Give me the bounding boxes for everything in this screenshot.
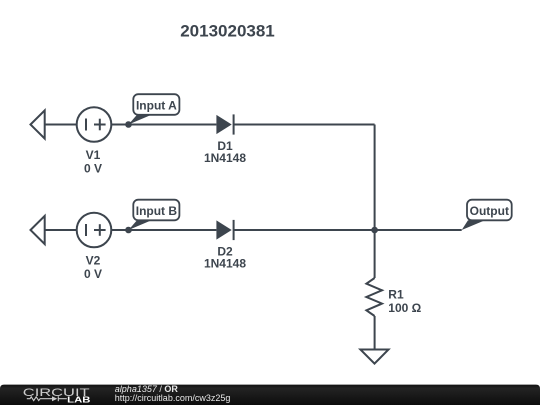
wire xyxy=(111,229,216,231)
wire vertical from D1 xyxy=(374,125,376,231)
node label Input A xyxy=(129,115,152,125)
diode D2 xyxy=(216,220,231,239)
node A junction dot xyxy=(125,121,132,128)
svg-text:V1: V1 xyxy=(86,148,101,162)
svg-text:0 V: 0 V xyxy=(84,161,102,175)
wire xyxy=(234,124,375,126)
wire xyxy=(111,124,216,126)
svg-text:100 Ω: 100 Ω xyxy=(388,301,421,315)
svg-text:0 V: 0 V xyxy=(84,267,102,281)
wire xyxy=(45,124,77,126)
junction dot xyxy=(371,227,378,234)
svg-text:V2: V2 xyxy=(86,253,101,267)
wire output row xyxy=(234,229,462,231)
svg-text:R1: R1 xyxy=(388,287,404,301)
wire xyxy=(45,229,77,231)
wire resistor to ground xyxy=(374,316,376,350)
voltage source V1 xyxy=(77,107,112,142)
svg-text:LAB: LAB xyxy=(67,396,90,405)
ground xyxy=(360,350,388,364)
node flag Input B terminal triangle xyxy=(31,216,45,244)
node label Output xyxy=(462,220,485,230)
resistor R1 xyxy=(366,278,382,316)
voltage source V2 xyxy=(77,213,112,248)
svg-text:http://circuitlab.com/cw3z25g: http://circuitlab.com/cw3z25g xyxy=(115,393,231,403)
node label Input B xyxy=(129,220,152,230)
node flag Input A terminal triangle xyxy=(31,110,45,138)
diode D1 xyxy=(216,115,231,134)
svg-text:1N4148: 1N4148 xyxy=(204,151,246,165)
svg-text:Output: Output xyxy=(470,204,509,218)
svg-text:Input A: Input A xyxy=(136,98,177,112)
svg-text:2013020381: 2013020381 xyxy=(180,22,275,41)
svg-text:Input B: Input B xyxy=(136,204,178,218)
wire junction to resistor xyxy=(374,230,376,278)
logo doodle wire+resistor+diode xyxy=(27,396,67,401)
node B junction dot xyxy=(125,227,132,234)
svg-text:1N4148: 1N4148 xyxy=(204,256,246,270)
